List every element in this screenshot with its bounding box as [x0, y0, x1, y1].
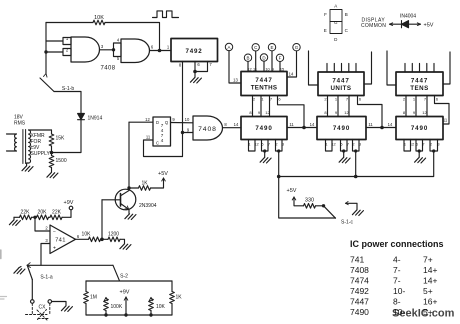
node 10K bottom: [149, 313, 152, 316]
resistor 15K: [49, 134, 54, 146]
wire S-2 bottom rail: [86, 314, 172, 316]
wire gate1 out to gate2 in: [100, 49, 114, 51]
svg-text:11: 11: [146, 135, 151, 140]
svg-text:1N914: 1N914: [88, 116, 103, 122]
node collector 1K junction: [127, 186, 130, 189]
svg-text:E: E: [324, 28, 327, 33]
7490 units bottom pins: [325, 140, 361, 147]
wire gate1 input stubs: [46, 41, 63, 52]
wire jumper pins 6-7 tens: [416, 146, 423, 151]
svg-text:S-2: S-2: [120, 274, 128, 280]
ground S-1-a: [19, 267, 22, 269]
svg-text:741: 741: [350, 255, 364, 265]
IC U6 7490 TENTHS: [241, 117, 287, 140]
svg-text:1200: 1200: [108, 232, 119, 238]
svg-text:D: D: [156, 120, 159, 125]
svg-text:741: 741: [55, 238, 66, 244]
svg-text:−: −: [53, 230, 56, 236]
svg-text:B: B: [246, 56, 249, 61]
node C: [252, 44, 259, 51]
switch S-1-c arm: [324, 206, 336, 218]
gate1 input bracket bottom: [63, 49, 71, 56]
7490 tenths bottom pins: [248, 140, 284, 147]
IC U2 7492: [171, 39, 218, 62]
IC U3 7474 flip-flop: [153, 117, 171, 146]
transistor Q1 2N3904: [115, 189, 136, 210]
svg-text:14+: 14+: [423, 276, 437, 286]
transformer T1 primary lead bottom: [7, 150, 17, 152]
wire 7447-7490 bcd C tens: [426, 96, 428, 117]
wire base down to divider: [101, 200, 103, 240]
svg-text:10K: 10K: [156, 304, 166, 310]
wire C stub: [255, 51, 257, 72]
svg-text:9: 9: [272, 66, 274, 71]
wire jumper pins 2-3 units: [353, 146, 360, 151]
svg-text:+9V: +9V: [64, 200, 74, 206]
terminal CX right: [48, 300, 52, 304]
node reset junction: [277, 149, 280, 152]
node A: [225, 43, 232, 50]
op-amp U4 741: [50, 225, 76, 254]
emitter with arrow: [121, 204, 130, 214]
node ground junction: [263, 149, 266, 152]
svg-text:4: 4: [161, 138, 164, 143]
wire jumper pins 6-7: [262, 146, 269, 151]
svg-text:15K: 15K: [56, 136, 66, 142]
wire E stub: [271, 51, 273, 72]
svg-text:15: 15: [280, 66, 284, 71]
display segment diagram square bottom: [330, 22, 342, 34]
svg-text:7-: 7-: [393, 265, 401, 275]
wire D stub: [263, 61, 265, 71]
scan artifact left edge: [0, 250, 2, 259]
svg-text:E: E: [270, 45, 273, 50]
svg-text:16+: 16+: [423, 297, 437, 307]
wire 7447-7490 bcd A units: [327, 96, 329, 117]
IC U5 7447 TENTHS: [241, 72, 287, 96]
node QD junction: [302, 126, 306, 130]
wire jumper pins 2-3 tens: [430, 146, 438, 151]
ground transformer: [22, 166, 33, 172]
svg-text:TENS: TENS: [410, 85, 429, 92]
svg-text:12: 12: [145, 117, 150, 122]
square wave symbol: [153, 11, 179, 18]
wire 7447 pin6 hook units: [358, 96, 383, 128]
ground 1200: [120, 244, 131, 250]
node +9V bottom: [124, 313, 127, 316]
svg-text:7447: 7447: [411, 78, 428, 85]
node bus left end: [277, 175, 281, 179]
svg-text:COMMON: COMMON: [361, 23, 386, 29]
ground 7490 units: [343, 151, 345, 157]
node reset junction tens: [432, 149, 435, 152]
node ground junction units: [342, 149, 345, 152]
resistor 22K right: [49, 216, 51, 218]
svg-text:11: 11: [289, 122, 294, 127]
svg-text:11: 11: [253, 66, 257, 71]
svg-text:F: F: [279, 56, 282, 61]
ground 1500: [47, 172, 58, 178]
svg-text:12: 12: [247, 66, 251, 71]
switch S-1-b arm: [40, 78, 54, 92]
wire collector line up to 7474: [128, 122, 130, 188]
svg-text:22K: 22K: [21, 210, 31, 216]
svg-text:7490: 7490: [350, 307, 369, 317]
svg-text:UNITS: UNITS: [330, 85, 351, 92]
svg-text:100K: 100K: [111, 304, 123, 310]
node S-1-c wiper: [322, 204, 325, 207]
wire gate out to 7490 pin14: [223, 127, 242, 129]
node G: [293, 44, 300, 51]
svg-text:1K: 1K: [141, 181, 148, 187]
node reset bus junction: [354, 175, 358, 179]
svg-text:13: 13: [233, 78, 238, 83]
wire C clock feedback: [144, 140, 183, 157]
diode IN4004: [401, 21, 403, 28]
resistor 1K right: [171, 281, 173, 292]
resistor 1K: [129, 187, 139, 189]
wire pin3: [41, 244, 50, 266]
wire to gate pin9: [183, 132, 194, 134]
wire reset down to bus: [278, 151, 280, 177]
svg-text:RMS: RMS: [14, 121, 26, 127]
wire 7447-7490 bcd C: [269, 96, 271, 117]
wire pin3 bus to S-2: [27, 264, 113, 266]
svg-text:12: 12: [344, 110, 349, 115]
wire gate2 out to 7492: [150, 50, 172, 52]
svg-text:11: 11: [368, 122, 373, 127]
IC U9 7447 TENS: [396, 72, 443, 96]
wire S-2 top rail: [86, 280, 172, 282]
wire 1K to +5V: [151, 178, 164, 188]
resistor 20K: [37, 215, 49, 220]
svg-text:G: G: [295, 45, 299, 50]
svg-text:10K: 10K: [94, 15, 104, 21]
wire jumper pins 2-3: [276, 146, 283, 151]
resistor 1M: [85, 281, 87, 292]
svg-text:S-1-a: S-1-a: [40, 275, 52, 281]
wire tens 7447 pin13 line: [387, 51, 396, 85]
terminal CX left: [31, 300, 35, 304]
switch S-1-c fixed contact to ground: [346, 202, 349, 205]
wire bus down to S-1-c: [279, 177, 336, 219]
wire D input from collector line: [129, 121, 153, 123]
wire G to 7447 pin14: [287, 51, 297, 77]
node D: [260, 54, 267, 61]
wire 7492 pin8 long down to gate U1c input: [182, 62, 184, 157]
svg-text:10-: 10-: [393, 286, 405, 296]
node reset junction units: [354, 149, 357, 152]
resistor 1500: [49, 156, 54, 168]
svg-text:7490: 7490: [333, 125, 350, 132]
wire tens 7447 pin14 line: [443, 52, 450, 84]
base wire: [102, 199, 121, 201]
wire 7447-7490 bcd B units: [337, 96, 339, 117]
power +5V transistor: [162, 178, 166, 181]
svg-text:7+: 7+: [423, 255, 433, 265]
svg-text:7447: 7447: [350, 297, 369, 307]
svg-text:B: B: [345, 12, 348, 17]
svg-text:14: 14: [234, 122, 239, 127]
transformer T1 secondary winding: [29, 130, 31, 163]
IC U8 7490 UNITS: [317, 117, 366, 140]
node pin6/7 junction: [193, 70, 197, 74]
svg-text:4-: 4-: [393, 255, 401, 265]
transformer T1 primary lead top: [7, 133, 17, 135]
svg-text:1M: 1M: [90, 295, 97, 301]
AND gate U1a 7408: [71, 37, 100, 62]
wire 10K to clock corner: [105, 23, 160, 51]
gate1 input bracket top: [63, 38, 71, 45]
node QD junction units: [380, 126, 384, 130]
svg-text:20K: 20K: [38, 210, 48, 216]
7490 tens bottom pins: [404, 140, 440, 147]
AND gate U1c 7408: [193, 116, 223, 140]
svg-text:7490: 7490: [411, 125, 428, 132]
svg-text:SUPPLY: SUPPLY: [31, 151, 51, 157]
svg-text:+5V: +5V: [158, 171, 168, 177]
wire diode to +5V: [409, 23, 421, 25]
svg-text:S-1-c: S-1-c: [341, 220, 353, 226]
wire 7492 pin6 stub: [194, 62, 196, 72]
node E: [268, 44, 275, 51]
resistor 100K trim: [104, 298, 108, 301]
svg-text:7490: 7490: [255, 125, 272, 132]
wire divider to pin2: [35, 217, 50, 231]
diode 1N914: [78, 114, 85, 120]
switch S-1-a arm: [28, 266, 33, 280]
svg-text:7447: 7447: [255, 77, 272, 84]
wire 7447-7490 bcd B tens: [415, 96, 417, 117]
node F: [276, 54, 283, 61]
wire jumper pins 1-12 tens: [404, 146, 411, 151]
wire S-1-b to diode: [54, 92, 81, 114]
wire units 7447 pin14 line: [364, 52, 372, 84]
svg-text:F: F: [324, 12, 327, 17]
node gate2 input junction: [112, 48, 115, 51]
wire CX right to ground: [52, 302, 66, 306]
wire jumper pins 6-7 units: [341, 146, 348, 151]
svg-text:+5V: +5V: [424, 23, 434, 29]
svg-text:7492: 7492: [350, 286, 369, 296]
node B: [244, 54, 251, 61]
svg-text:8-: 8-: [393, 297, 401, 307]
svg-text:1K: 1K: [176, 295, 183, 301]
wire QD units to tens pin14: [366, 127, 396, 129]
svg-text:10K: 10K: [82, 232, 92, 238]
wire 7492 pin7 to pin6: [195, 62, 208, 72]
wire to ground: [194, 72, 196, 78]
wire 7447 pin6 hook to QD: [278, 96, 305, 128]
node output junction: [100, 238, 104, 242]
svg-text:14: 14: [388, 122, 393, 127]
node ground junction tens: [418, 149, 421, 152]
svg-text:+: +: [53, 246, 56, 252]
svg-text:14: 14: [310, 122, 315, 127]
gate2 input bracket: [114, 43, 122, 57]
svg-text:7447: 7447: [332, 78, 349, 85]
wire secondary bottom to ground: [27, 163, 29, 166]
svg-text:+5V: +5V: [287, 188, 297, 194]
svg-text:G: G: [334, 20, 338, 25]
transformer T1 primary winding: [15, 134, 17, 151]
node divider junction: [32, 216, 37, 218]
resistor 10K output: [89, 237, 101, 242]
svg-text:7492: 7492: [186, 48, 203, 55]
wire F stub: [279, 62, 281, 72]
svg-text:IN4004: IN4004: [400, 14, 416, 20]
svg-text:14: 14: [289, 72, 294, 77]
svg-text:12: 12: [422, 110, 427, 115]
wire feedback top from 10K left corner down to S-1-b: [45, 23, 47, 74]
wire 7447-7490 bcd C units: [348, 96, 350, 117]
svg-text:14+: 14+: [423, 265, 437, 275]
node junction gate1 inputs: [44, 50, 47, 53]
wire 7447-7490 bcd A: [252, 96, 254, 117]
svg-text:7408: 7408: [350, 265, 369, 275]
wire diode to supply junction: [52, 120, 82, 153]
svg-text:2N3904: 2N3904: [139, 203, 157, 209]
svg-text:7408: 7408: [101, 66, 116, 72]
resistor 330: [304, 204, 316, 209]
wire reset down to bus units: [355, 151, 357, 177]
svg-text:22K: 22K: [52, 210, 62, 216]
svg-text:330: 330: [305, 198, 314, 204]
ground divider left: [13, 217, 15, 219]
wire top horizontal through 10K: [46, 22, 93, 24]
node supply junction: [50, 151, 54, 155]
resistor 10K trim: [149, 298, 153, 301]
wire QD to next 7490 pin14: [287, 127, 317, 129]
wire units 7447 pin13 line: [309, 51, 319, 85]
node clock junction: [158, 49, 162, 53]
svg-text:5+: 5+: [423, 286, 433, 296]
wire arm to CX terminal: [31, 280, 33, 300]
wire 7447 pin6 hook tens to own QD: [435, 96, 450, 125]
wire output to 10K: [76, 238, 89, 240]
wire jumper pins 1-12: [249, 146, 256, 151]
segment stubs units: [327, 64, 356, 73]
wire 7447-7490 bcd B: [260, 96, 262, 117]
switch S-1-b arrow tick: [44, 74, 48, 78]
ground 7490 tenths: [264, 151, 266, 157]
wire A to 7447 pin13: [229, 51, 241, 83]
svg-text:TENTHS: TENTHS: [251, 84, 278, 91]
svg-text:7408: 7408: [198, 126, 217, 133]
svg-text:SeekIC.com: SeekIC.com: [392, 308, 455, 320]
svg-text:CX: CX: [39, 305, 47, 311]
display segment diagram square top: [330, 10, 342, 22]
svg-text:12: 12: [265, 110, 270, 115]
wire reset bus: [279, 151, 434, 177]
svg-text:A: A: [227, 45, 230, 50]
wire jumper pins 1-12 units: [326, 146, 333, 151]
wire secondary top to 15K: [29, 129, 52, 131]
wire Q output to gate U1c pin10: [171, 122, 194, 124]
svg-text:7-: 7-: [393, 276, 401, 286]
segment stubs tens: [405, 64, 434, 73]
transformer T1 core: [23, 130, 26, 164]
svg-text:7474: 7474: [350, 276, 369, 286]
IC U7 7447 UNITS: [318, 72, 364, 96]
resistor 22K left: [14, 216, 20, 218]
wire 7447-7490 bcd A tens: [405, 96, 407, 117]
svg-text:A: A: [334, 4, 337, 9]
svg-text:1500: 1500: [56, 158, 67, 164]
IC U10 7490 TENS: [396, 117, 443, 140]
svg-text:C: C: [156, 141, 159, 146]
wire collector into transistor: [121, 188, 129, 196]
switch S-2 arm: [113, 265, 120, 281]
wire arrow to diode: [390, 23, 402, 25]
ground 7492: [190, 77, 201, 83]
switch S-1-a contact arrow: [27, 263, 30, 268]
node gate pin9 junction: [181, 131, 184, 134]
AND gate U1b 7408: [121, 39, 150, 63]
svg-text:10: 10: [185, 117, 190, 122]
resistor 1200: [102, 238, 108, 240]
wire B stub: [247, 61, 249, 71]
capacitor CX dashed: [26, 303, 50, 320]
svg-text:+9V: +9V: [120, 290, 130, 296]
ground emitter: [125, 214, 136, 220]
resistor 10K (feedback): [93, 20, 105, 25]
svg-text:IC power connections: IC power connections: [350, 239, 444, 249]
ground 7490 tens: [418, 151, 420, 157]
node 100K bottom: [104, 313, 107, 316]
